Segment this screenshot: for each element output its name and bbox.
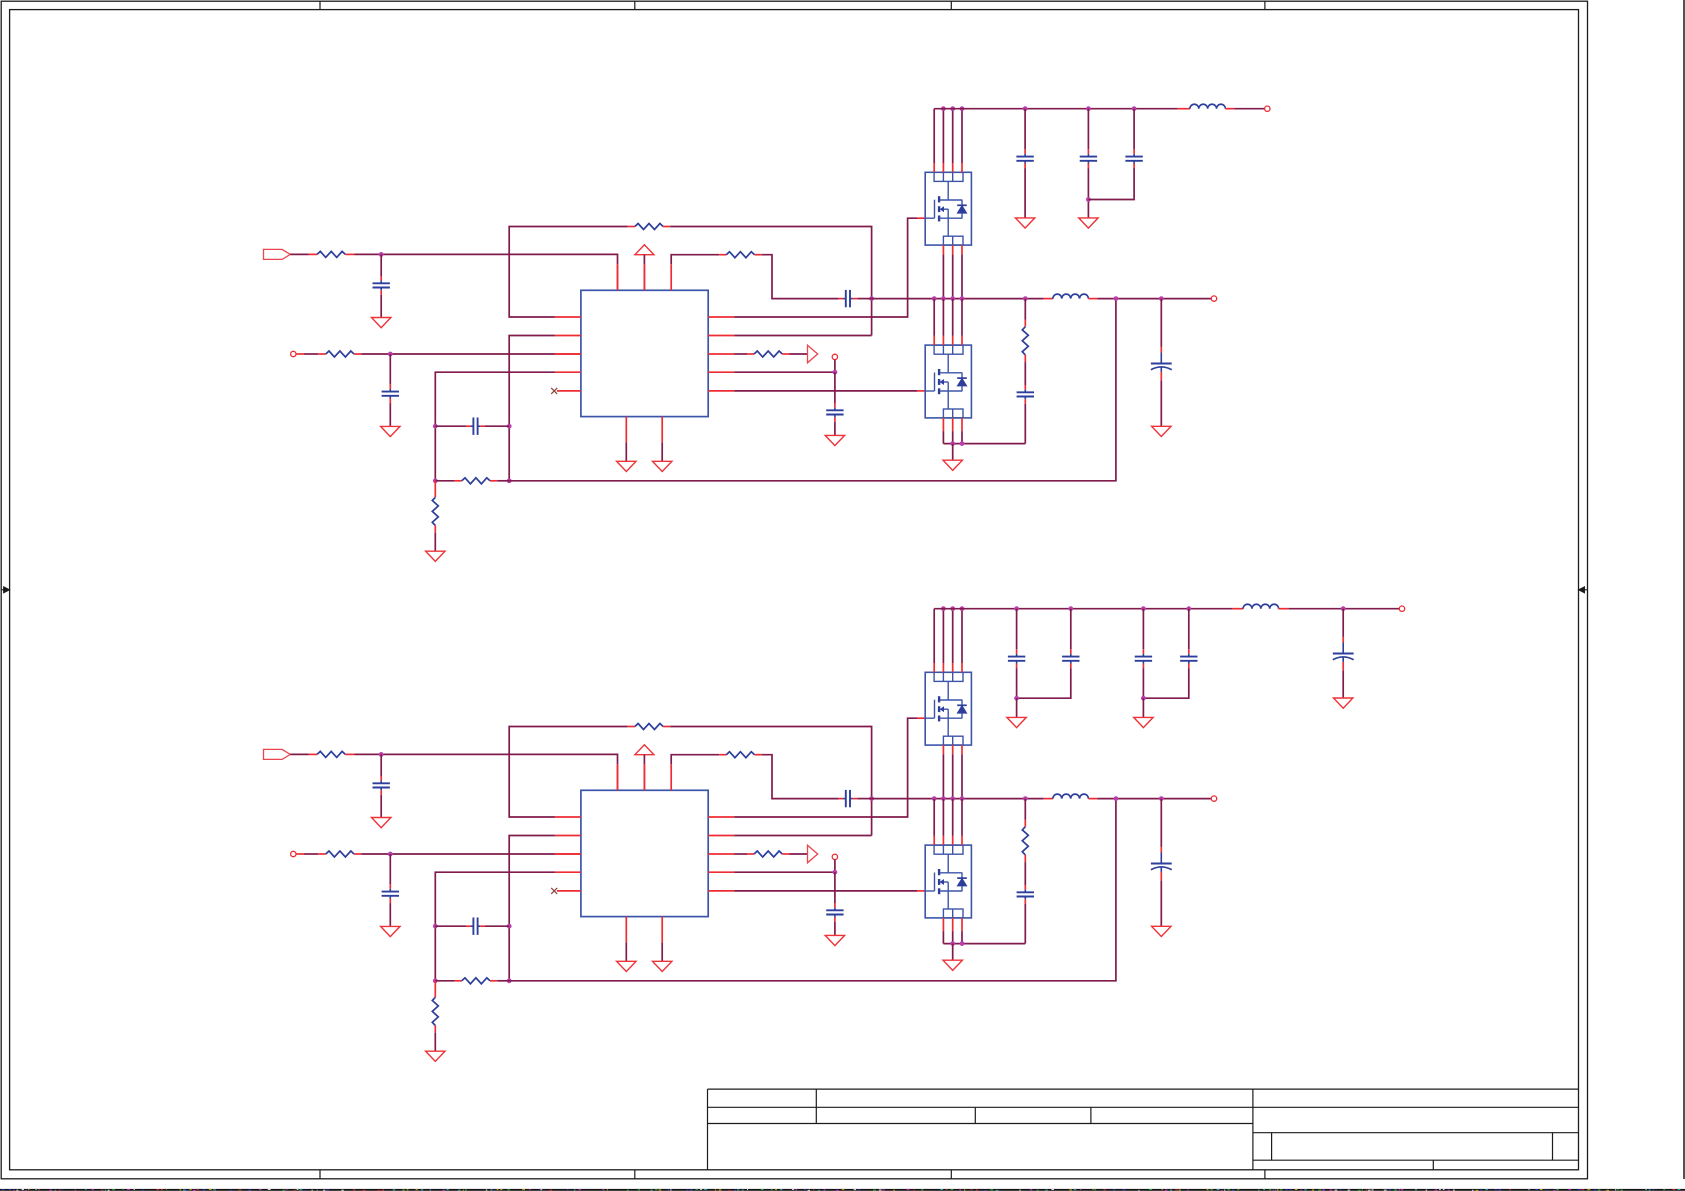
ground at C11 — [372, 318, 391, 328]
resistor R17 (to ground) — [432, 481, 438, 551]
ground at C12 — [381, 426, 400, 436]
capacitor C211 (VIN filter) — [1143, 609, 1197, 699]
junction: comp nodes — [433, 424, 512, 483]
ground at C24 — [825, 935, 844, 945]
capacitor C14 (soft-start) — [826, 372, 843, 435]
output port P25 (circle) — [1211, 796, 1216, 801]
junction: test node — [833, 870, 838, 875]
title block — [708, 1089, 1579, 1170]
input port P22 (circle) — [291, 851, 296, 856]
capacitor C15 (compensation) — [435, 418, 509, 435]
low-side MOSFET Q12 package — [925, 345, 971, 418]
junctions on VIN rail at Q11 — [941, 106, 964, 111]
inductor L11 (output) — [1053, 294, 1089, 298]
wire: IC pin R3 to resistor R15 — [734, 353, 754, 355]
resistor R25 (PGOOD series) — [754, 851, 782, 857]
ground at Q22 source — [943, 944, 962, 971]
wire: IC pin R1 to high-side gate — [734, 218, 925, 317]
input port P11 (flag) — [264, 249, 291, 259]
page right edge line — [1683, 0, 1685, 1179]
resistor R16 (compensation) — [435, 478, 509, 484]
resistor R11 (input series) — [317, 251, 345, 257]
IC U1 pin stubs — [555, 264, 734, 442]
ground at C18 — [1015, 218, 1034, 228]
junction: node at C22 — [388, 852, 393, 857]
ground at VIN cap pair — [1007, 698, 1026, 727]
ground at C14 — [825, 435, 844, 445]
wire: R14 down to capacitor C13 — [755, 255, 839, 299]
capacitor C11 (input filter) — [373, 254, 390, 317]
wire: snubber return to source rail — [943, 443, 1025, 445]
right edge center arrow — [1579, 587, 1588, 593]
wire: feedback loop (IC pin L1 up and over to R23) — [509, 727, 635, 818]
capacitor C22 — [382, 854, 399, 926]
wire: R25 to output arrow port — [782, 853, 807, 855]
output arrow port P23 — [808, 845, 818, 863]
capacitor C23 (boot, series) — [839, 790, 872, 807]
wire: L12 to input port — [1225, 108, 1264, 110]
junction: SW sense on vertical — [869, 796, 874, 801]
wire: IC pin L2 to compensation vertical — [509, 336, 555, 481]
wire: L11 to output port — [1088, 298, 1211, 300]
test point port P14 (circle) — [832, 354, 837, 359]
wire: SW rail to Q22 drain — [934, 799, 962, 846]
ground at Q12 source — [943, 444, 962, 471]
input port P16 (circle) — [1265, 106, 1270, 111]
junctions on VIN rail at Q21 — [941, 606, 964, 611]
capacitor C27 (snubber) — [1017, 885, 1034, 944]
wire: SW rail to Q12 drain — [934, 299, 962, 346]
ground at C19 — [1079, 218, 1098, 228]
wire: IC pin R5 to low-side gate — [734, 890, 925, 892]
wire: SW rail — [872, 298, 1053, 300]
resistor R24 (boot) — [726, 752, 754, 758]
wire: IC pin R4 to test node — [734, 860, 835, 873]
capacitor C26 (output, polarized) — [1151, 799, 1172, 927]
wire: IC pin L2 to compensation vertical — [509, 836, 555, 981]
wire: snubber return to source rail — [943, 943, 1025, 945]
output port P15 (circle) — [1211, 296, 1216, 301]
input port P21 (flag) — [264, 749, 291, 759]
wire: vertical to IC pin R2 — [734, 835, 871, 837]
resistor R26 (compensation) — [435, 978, 509, 984]
junctions on source rail — [950, 441, 964, 446]
resistor R28 (snubber) — [1022, 799, 1028, 885]
no-connect X on IC U1 left pin 5 — [551, 388, 557, 394]
wire: boot pin (IC top 3) to resistor R14 — [671, 255, 726, 265]
ground at IC U1 pin B1 — [617, 443, 636, 472]
junction: VIN cap pair tie — [1141, 696, 1146, 701]
wire: IC pin R3 to resistor R25 — [734, 853, 754, 855]
wire: IC pin R5 to low-side gate — [734, 390, 925, 392]
ground at C212 — [1334, 698, 1353, 708]
wire: R21 to IC pin 1 (top) — [345, 754, 617, 790]
wire: R11 to IC pin 1 (top) — [345, 254, 617, 290]
wire: boot pin (IC top 3) to resistor R24 — [671, 755, 726, 765]
wire: feedback sense line to SW output — [509, 299, 1116, 481]
wire: SW rail — [872, 798, 1053, 800]
IC U2 (buck controller) — [581, 790, 708, 916]
wire: R12 to IC pin EN — [354, 353, 581, 355]
wire: port P22 to resistor R22 — [296, 853, 326, 855]
resistor R13 (feedback, top) — [635, 224, 663, 230]
junction: VIN cap pair tie — [1014, 696, 1019, 701]
wire: R15 to output arrow port — [782, 353, 807, 355]
ground at C26 — [1152, 926, 1171, 936]
wire: Q11 source to SW rail — [943, 245, 962, 299]
output arrow port P13 — [808, 345, 818, 363]
wire: Q21 source to SW rail — [943, 745, 962, 799]
junctions on source rail — [950, 941, 964, 946]
capacitor C28 (VIN filter) — [1008, 609, 1025, 699]
inductor L12 (VIN) — [1190, 104, 1226, 108]
resistor R18 (snubber) — [1022, 299, 1028, 385]
ground at C21 — [372, 818, 391, 828]
zone tick marks top edge — [320, 1, 1265, 9]
capacitor C19 (VIN filter) — [1080, 109, 1097, 218]
wire: VIN rail verticals into Q11 drain — [934, 109, 962, 173]
junction: test node — [833, 370, 838, 375]
capacitor C21 (input filter) — [373, 754, 390, 817]
input port P12 (circle) — [291, 351, 296, 356]
wire: L21 to output port — [1088, 798, 1211, 800]
ground at R17 — [426, 551, 445, 561]
resistor R12 (enable/sense series) — [326, 351, 354, 357]
junctions on VIN rail (filter caps) — [1023, 106, 1137, 111]
ground at IC U2 pin B1 — [617, 943, 636, 972]
low-side MOSFET Q22 package — [925, 845, 971, 918]
resistor R14 (boot) — [726, 252, 754, 258]
capacitor C16 (output, polarized) — [1151, 299, 1172, 427]
wire: R22 to IC pin EN — [354, 853, 581, 855]
junction: VIN bulk cap — [1341, 606, 1346, 611]
ground at VIN cap pair — [1134, 698, 1153, 727]
capacitor C24 (soft-start) — [826, 872, 843, 935]
junction: node at C12 — [388, 352, 393, 357]
junction: input node at C21 — [379, 752, 384, 757]
junctions on VIN rail (filter caps) — [1014, 606, 1191, 611]
capacitor C110 (VIN filter) — [1088, 109, 1142, 200]
capacitor C18 (VIN filter) — [1016, 109, 1033, 218]
wire: feedback sense line to SW output — [509, 799, 1116, 981]
power arrow (VCC) above IC U1 — [635, 245, 654, 290]
input port P26 (circle) — [1399, 606, 1404, 611]
junction: SW sense on vertical — [869, 296, 874, 301]
power arrow (VCC) above IC U2 — [635, 745, 654, 791]
capacitor C17 (snubber) — [1017, 385, 1034, 444]
capacitor C212 (VIN bulk, polarized) — [1333, 609, 1354, 698]
capacitor C25 (compensation) — [435, 918, 509, 935]
junction: C19/C110 tie — [1086, 197, 1091, 202]
IC U1 (buck controller) — [581, 290, 708, 416]
zone tick marks bottom edge — [320, 1170, 1265, 1179]
ground at IC U2 pin B2 — [653, 943, 672, 972]
wire: R24 down to capacitor C23 — [755, 755, 839, 799]
wire: VIN rail verticals into Q21 drain — [934, 609, 962, 673]
ground at IC U1 pin B2 — [653, 443, 672, 472]
resistor R27 (to ground) — [432, 981, 438, 1051]
junction: input node at C11 — [379, 252, 384, 257]
junction: comp nodes — [433, 924, 512, 983]
left edge center arrow — [1, 587, 9, 593]
resistor R23 (feedback, top) — [635, 724, 663, 730]
high-side MOSFET Q11 package — [925, 172, 971, 245]
wire: Q12 source to rail — [943, 418, 962, 444]
capacitor C29 (VIN filter) — [1017, 609, 1080, 699]
resistor R15 (PGOOD series) — [754, 351, 782, 357]
wire: IC pin L4 to compensation vertical — [435, 372, 555, 481]
wire: R23 to vertical at SW sense — [663, 727, 872, 836]
bottom fine-print text band — [0, 1189, 1685, 1191]
capacitor C12 — [382, 354, 399, 426]
high-side MOSFET Q21 package — [925, 672, 971, 745]
wire: IC pin R1 to high-side gate — [734, 718, 925, 817]
resistor R21 (input series) — [317, 751, 345, 757]
wire: VIN rail — [934, 608, 1243, 610]
capacitor C13 (boot, series) — [839, 290, 872, 307]
wire: IC pin L4 to compensation vertical — [435, 872, 555, 981]
wire: port P12 to resistor R12 — [296, 353, 326, 355]
junctions on SW rail — [932, 296, 1028, 301]
capacitor C210 (VIN filter) — [1135, 609, 1152, 699]
wire: L22 to port — [1279, 608, 1400, 610]
wire: VIN rail — [934, 108, 1190, 110]
wire: vertical to IC pin R2 — [734, 335, 871, 337]
IC U2 pin stubs — [555, 764, 734, 942]
junctions on SW rail — [932, 796, 1028, 801]
ground at C22 — [381, 926, 400, 936]
wire: IC pin R4 to test node — [734, 360, 835, 373]
wire: feedback loop (IC pin L1 up and over to R13) — [509, 227, 635, 318]
no-connect X on IC U2 left pin 5 — [551, 888, 557, 894]
resistor R22 (enable/sense series) — [326, 851, 354, 857]
wire: port P11 to resistor R11 — [290, 253, 317, 255]
inductor L22 (VIN) — [1243, 604, 1279, 608]
wire: Q22 source to rail — [943, 918, 962, 944]
test point port P24 (circle) — [832, 854, 837, 859]
wire: port P21 to resistor R21 — [290, 753, 317, 755]
inductor L21 (output) — [1053, 794, 1089, 798]
ground at R27 — [426, 1051, 445, 1061]
wire: R13 to vertical at SW sense — [663, 227, 872, 336]
ground at C16 — [1152, 426, 1171, 436]
junctions after L11 — [1114, 296, 1164, 301]
junctions after L21 — [1114, 796, 1164, 801]
